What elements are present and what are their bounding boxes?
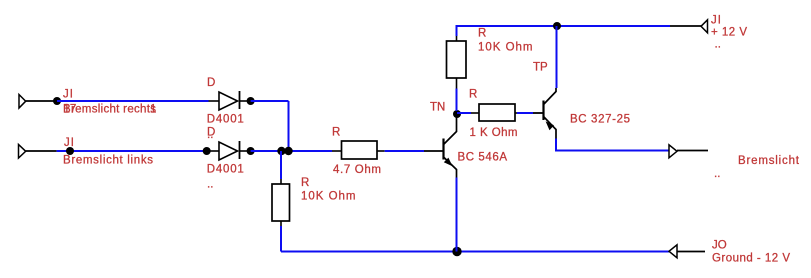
node dot before diode2 — [203, 147, 211, 155]
svg-text:TN: TN — [430, 102, 445, 114]
connector output Bremslicht triangle — [669, 145, 677, 158]
wire: rail down to TP emitter — [556, 26, 558, 88]
svg-text:D: D — [207, 77, 215, 89]
svg-text:JO: JO — [712, 240, 727, 252]
wire: diode1 out to corner — [251, 100, 289, 102]
connector J1 Bremslicht rechts — [19, 95, 26, 109]
svg-text:R: R — [332, 127, 340, 139]
wire: emitter to bottom rail — [456, 178, 458, 252]
svg-text:BC 546A: BC 546A — [458, 152, 508, 164]
svg-text:R: R — [478, 28, 486, 40]
wire: input1 to diode D1 — [57, 100, 209, 102]
svg-text:JI: JI — [711, 15, 722, 27]
node dot input1 — [53, 97, 61, 105]
svg-text:..: .. — [715, 39, 721, 51]
transistor Q1 BC546A — [424, 116, 457, 178]
wire: input2 to diode D2 — [57, 150, 209, 152]
svg-text:..: .. — [207, 179, 213, 191]
wire: R10K bottom to rail — [280, 226, 282, 252]
resistor R 1 K Ohm — [471, 104, 517, 121]
wire: R10K top to rail corner — [457, 26, 671, 36]
emitter arrow TP — [546, 121, 554, 130]
wire: TP collector to output row — [556, 139, 669, 151]
svg-text:17: 17 — [64, 104, 77, 116]
connector JI Bremslicht links — [19, 145, 26, 159]
node dot junction left — [277, 147, 285, 155]
svg-text:R: R — [469, 89, 477, 101]
node dot diode2 out — [247, 147, 255, 155]
wire: input 1 black lead — [26, 100, 57, 102]
connector JI +12V triangle — [701, 20, 708, 33]
wire: bottom rail — [281, 251, 669, 253]
resistor R 4.7 Ohm — [332, 141, 385, 159]
node dot bottom rail — [452, 247, 461, 256]
transistor Q2 BC327-25 TP — [533, 88, 556, 139]
svg-text:Bremslicht rechts: Bremslicht rechts — [63, 104, 156, 116]
svg-text:1: 1 — [150, 104, 156, 116]
wire: R1K to TP base — [517, 112, 533, 114]
wire: vertical drop diode1 to junction — [288, 101, 290, 151]
wire: junction down to R10K bottom — [280, 151, 282, 179]
node dot top rail — [553, 22, 561, 30]
node dot TN — [453, 110, 461, 118]
wire: TN node up to R10K top — [456, 89, 458, 112]
node dot diode1 out — [247, 97, 255, 105]
svg-text:10K Ohm: 10K Ohm — [478, 42, 533, 54]
svg-text:..: .. — [714, 168, 720, 180]
resistor R 10K Ohm top — [447, 36, 467, 89]
emitter arrow BC546A — [444, 158, 453, 167]
svg-text:D4001: D4001 — [207, 164, 244, 176]
wire: ground black lead — [677, 251, 705, 253]
wire: output black lead — [677, 150, 708, 152]
wire: +12V black lead — [670, 25, 701, 27]
wire: R4.7 to transistor base — [385, 150, 424, 152]
node dot input2 — [66, 147, 74, 155]
svg-text:JI: JI — [63, 88, 74, 100]
svg-text:BC 327-25: BC 327-25 — [570, 114, 630, 126]
svg-text:Bremslicht: Bremslicht — [738, 155, 800, 167]
wire: input 2 black lead — [26, 150, 57, 152]
connector JO ground triangle — [669, 245, 677, 258]
svg-text:Bremslicht links: Bremslicht links — [63, 155, 153, 167]
resistor R 10K Ohm bottom — [272, 179, 290, 226]
wire: TN node to R1K — [457, 112, 471, 114]
svg-text:..: .. — [207, 129, 213, 141]
svg-text:1 K Ohm: 1 K Ohm — [470, 127, 518, 139]
svg-text:JI: JI — [64, 137, 75, 149]
wire: diode2 out to resistor R4.7 — [251, 150, 332, 152]
svg-text:10K Ohm: 10K Ohm — [301, 190, 356, 202]
svg-text:+ 12 V: + 12 V — [711, 27, 747, 39]
svg-text:TP: TP — [533, 62, 548, 74]
svg-text:R: R — [301, 177, 309, 189]
diode D1 — [209, 91, 249, 110]
diode D2 — [209, 141, 249, 160]
svg-text:4.7 Ohm: 4.7 Ohm — [333, 164, 381, 176]
svg-text:D4001: D4001 — [207, 114, 244, 126]
svg-text:Ground - 12 V: Ground - 12 V — [712, 253, 790, 265]
node dot junction right — [284, 147, 292, 155]
